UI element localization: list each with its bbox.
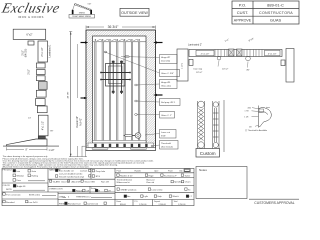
svg-text:1 1/2": 1 1/2" (49, 150, 55, 152)
svg-text:GUAS: GUAS (270, 18, 282, 23)
svg-text:Custom: Custom (200, 151, 216, 156)
svg-text:Laser cut: Laser cut (161, 131, 170, 134)
svg-text:Threshold bronze: Threshold bronze (117, 179, 133, 181)
svg-text:Smooth handle (hand only): Smooth handle (hand only) (59, 175, 84, 178)
svg-text:889-01-C: 889-01-C (267, 2, 284, 7)
svg-text:COLOR: COLOR (3, 185, 11, 187)
svg-text:Glass C. 3/4": Glass C. 3/4" (161, 73, 174, 75)
svg-text:Lgfts: Lgfts (144, 195, 148, 198)
svg-text:Glass pat: Glass pat (146, 178, 155, 181)
svg-text:Salver: Salver (185, 175, 191, 177)
svg-text:NOTE: NOTE (6, 189, 12, 191)
svg-text:Chairs: Chairs (185, 182, 191, 184)
svg-text:Prod: Prod (117, 171, 121, 173)
svg-text:Oak: Oak (179, 171, 183, 173)
svg-text:1/2"x2": 1/2"x2" (222, 69, 229, 71)
svg-text:OTHER DOOR: OTHER DOOR (49, 188, 63, 190)
svg-text:1 1/2 x: 1 1/2 x (182, 63, 184, 69)
svg-text:GLASS: GLASS (53, 180, 61, 183)
svg-text:4"x1.1/2": 4"x1.1/2" (268, 53, 277, 55)
svg-text:Clear std: Clear std (146, 181, 154, 184)
svg-text:Standard rust: Standard rust (68, 202, 81, 205)
svg-text:Widescreen kit: Widescreen kit (117, 181, 131, 184)
svg-text:1 7/8: 1 7/8 (245, 111, 249, 113)
svg-text:Handle: Handle (135, 171, 142, 173)
svg-text:OUT: OUT (88, 3, 93, 5)
svg-text:Commercial: Commercial (87, 202, 99, 205)
svg-text:Glass C. 1": Glass C. 1" (161, 115, 172, 117)
svg-text:Rain 1/8: Rain 1/8 (101, 181, 110, 183)
svg-text:Iron: Iron (17, 170, 21, 173)
svg-text:2"x1 1/2": 2"x1 1/2" (42, 47, 44, 56)
svg-text:Clear 6/8: Clear 6/8 (61, 180, 70, 183)
svg-text:1.8: 1.8 (28, 118, 32, 120)
svg-text:4/32: 4/32 (248, 107, 252, 109)
svg-text:Glass (2x): Glass (2x) (161, 86, 171, 88)
svg-text:turns: turns (266, 106, 270, 109)
svg-text:Deposit: Deposit (154, 200, 161, 203)
svg-text:Hinge Ø7: Hinge Ø7 (161, 57, 171, 59)
svg-text:3/16": 3/16" (161, 136, 166, 138)
svg-text:1/2"x2": 1/2"x2" (196, 72, 203, 74)
svg-text:(*) Threshold is Available: (*) Threshold is Available (245, 129, 268, 132)
svg-text:Wont-k: Wont-k (173, 195, 179, 198)
svg-text:Std prep. Ø2 1: Std prep. Ø2 1 (161, 101, 176, 104)
svg-text:4: 4 (68, 196, 70, 198)
svg-text:Ø2": Ø2" (247, 70, 251, 72)
svg-text:2,500.00: 2,500.00 (159, 204, 166, 206)
svg-text:Full 42": Full 42" (80, 118, 83, 126)
svg-text:Hinge Ø5: Hinge Ø5 (161, 82, 171, 84)
svg-text:Notes: Notes (199, 168, 207, 172)
svg-text:Help: Help (158, 196, 163, 198)
svg-text:PRODUCT: PRODUCT (3, 170, 14, 172)
svg-text:1,250.00: 1,250.00 (178, 204, 185, 206)
svg-text:Door stop: Door stop (194, 68, 204, 71)
svg-text:Total: Total (174, 200, 178, 203)
svg-text:BTG: BTG (96, 176, 101, 178)
svg-text:Lockset: Lockset (80, 170, 88, 173)
svg-text:Euro handle set: Euro handle set (59, 170, 74, 173)
svg-text:1,250.00: 1,250.00 (139, 204, 146, 206)
svg-text:Oper: Oper (154, 171, 159, 173)
svg-text:6"x2": 6"x2" (26, 33, 32, 37)
svg-text:5/8: 5/8 (249, 126, 252, 128)
svg-text:P.O.: P.O. (239, 2, 247, 7)
svg-text:Paint: Paint (168, 170, 173, 173)
svg-text:Threshold: Threshold (161, 142, 172, 145)
svg-text:CUSTOMERS APPROVAL: CUSTOMERS APPROVAL (254, 201, 294, 205)
svg-text:2"x2": 2"x2" (29, 69, 31, 75)
svg-text:LH: LH (108, 191, 111, 193)
svg-text:(See Detail): (See Detail) (161, 146, 173, 149)
svg-text:Peep hole: Peep hole (96, 171, 106, 173)
svg-text:THRESHOLD 2: THRESHOLD 2 (76, 196, 91, 198)
svg-text:2"x2": 2"x2" (23, 50, 25, 56)
svg-text:IRON & DOORS: IRON & DOORS (18, 15, 44, 19)
svg-text:Handles 6 1/2: Handles 6 1/2 (120, 175, 133, 177)
svg-text:Lock-set deadbolt combo: Lock-set deadbolt combo (59, 172, 83, 175)
svg-text:850.00: 850.00 (120, 204, 126, 206)
svg-text:SWING: SWING (79, 12, 86, 14)
svg-text:Left: Left (86, 190, 90, 193)
svg-text:1"x2": 1"x2" (225, 39, 230, 43)
svg-text:Kit: Kit (188, 188, 191, 191)
svg-text:OUTSIDE VIEW: OUTSIDE VIEW (121, 11, 148, 15)
svg-text:CUST.: CUST. (237, 10, 249, 15)
svg-text:Ø 5/8": Ø 5/8" (249, 38, 255, 43)
svg-text:Laminated 1: Laminated 1 (48, 44, 51, 57)
svg-text:48 7/8": 48 7/8" (67, 91, 69, 98)
svg-text:Aur: Aur (127, 195, 130, 198)
svg-text:Exclusive: Exclusive (0, 1, 61, 17)
svg-text:Laminated 2": Laminated 2" (188, 43, 202, 46)
svg-text:APPROVE: APPROVE (234, 19, 252, 23)
svg-text:Finan: Finan (117, 201, 122, 203)
svg-text:Standard: Standard (6, 201, 15, 204)
svg-text:Spindles: Spindles (174, 182, 182, 184)
svg-text:Door: Door (17, 179, 22, 182)
svg-text:Kit-Chateau P: Kit-Chateau P (164, 174, 177, 177)
svg-text:Lubor online: Lubor online (152, 189, 164, 191)
svg-text:4"x1.1/2": 4"x1.1/2" (201, 53, 210, 55)
svg-text:Railing: Railing (32, 176, 39, 178)
svg-text:LT: LT (190, 196, 193, 198)
svg-text:Bright 6S: Bright 6S (17, 185, 26, 188)
svg-text:4"x1 1/2": 4"x1 1/2" (42, 121, 44, 130)
svg-text:RIGHT HAND SWING: RIGHT HAND SWING (72, 15, 91, 18)
svg-text:Window: Window (17, 176, 25, 178)
svg-text:R: R (99, 191, 101, 193)
svg-text:1 1/8: 1 1/8 (244, 116, 248, 118)
svg-text:Regd: Regd (149, 175, 154, 177)
svg-text:About 6/8: About 6/8 (72, 180, 82, 183)
svg-text:Door (3x): Door (3x) (161, 60, 170, 63)
svg-text:P.O.: P.O. (135, 201, 139, 203)
svg-text:8": 8" (26, 150, 28, 152)
svg-text:Low 2x10: Low 2x10 (29, 202, 39, 204)
svg-text:P.U. conversion: P.U. conversion (6, 193, 21, 196)
svg-text:BOW online: BOW online (29, 194, 41, 196)
svg-text:Gate: Gate (32, 170, 37, 173)
svg-text:(64.000): (64.000) (26, 48, 28, 57)
svg-text:CONSTRUCTORA: CONSTRUCTORA (259, 11, 293, 15)
svg-text:GREAT wondrous: GREAT wondrous (121, 188, 137, 191)
svg-text:Glass OBS: Glass OBS (85, 181, 96, 183)
svg-text:7/8": 7/8" (50, 131, 54, 133)
svg-text:36 3/4": 36 3/4" (108, 25, 119, 29)
